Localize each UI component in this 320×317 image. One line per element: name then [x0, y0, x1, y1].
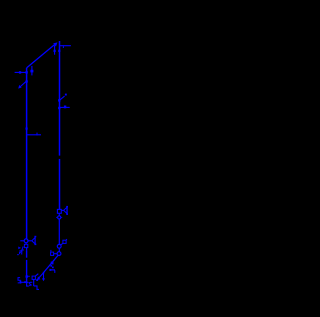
via dot on V1 [26, 128, 28, 130]
step below V1b end [27, 284, 29, 286]
via dot on V2 [58, 50, 60, 52]
tick above blob [53, 260, 55, 261]
ring R3 [57, 252, 61, 256]
pad P1 square on V2 [57, 209, 61, 213]
link S3 to R3 [54, 253, 58, 255]
arrow A1 on V1 (emitter-style, down-left) [18, 80, 28, 88]
stub from D1 down with pad [30, 66, 33, 76]
wire V1b upper [26, 250, 28, 257]
glyph bar horizontal [50, 269, 55, 271]
pad S3 square [51, 252, 54, 255]
pad S4 square [24, 244, 27, 247]
junction dot T at V1 top [25, 71, 27, 73]
arrow diagonal down-left [36, 273, 43, 281]
stub below S4 [26, 248, 28, 251]
nubs on R1 [55, 216, 58, 218]
junction dot on H1 [19, 71, 21, 73]
wire P1 to R1 [58, 213, 60, 215]
wire P1 to diode [61, 209, 63, 211]
wire bottom horizontal [21, 281, 28, 283]
tick on S2 [65, 239, 68, 240]
wire H2 top stub [59, 45, 71, 47]
small arrowhead up-left [28, 282, 31, 286]
pad S5 square [32, 276, 35, 279]
diagonal D3 [44, 256, 58, 273]
label blob on D3 [51, 262, 54, 265]
junction at D3 lower end [43, 272, 45, 274]
stub left of R4 [20, 240, 24, 242]
glyph near R4 [18, 246, 23, 251]
stub diagonal from S5 [35, 274, 38, 276]
wire V1 left vertical [26, 68, 28, 239]
wire V2 lower [59, 159, 61, 209]
tick right of via [28, 275, 30, 277]
branch B1 diagonal with blob [58, 94, 67, 102]
ring R4 [24, 239, 28, 243]
glyph tick down at bar right [54, 270, 56, 273]
stub right of R4 [28, 240, 32, 242]
diode T1 triangle [32, 238, 35, 244]
arrow vertical down [42, 273, 45, 282]
diagonal D1 with arrowhead [27, 42, 58, 68]
stub R4 to S4 [25, 243, 27, 245]
short vertical SV1 [54, 45, 56, 54]
branch B2 horizontal with blob [58, 106, 70, 110]
stub below S5 [33, 279, 35, 286]
stub R2 to S2 [61, 243, 63, 245]
stub wire H3 [27, 134, 41, 136]
pad S2 square [63, 240, 66, 243]
dot right of S5 [36, 279, 38, 281]
ring R1 [58, 216, 61, 219]
wire R1 to R2 [58, 219, 60, 244]
via dot on V1b [26, 275, 29, 277]
small dots below blob [50, 265, 52, 267]
diode T2 triangle [64, 207, 67, 213]
tick on H2 [62, 46, 64, 48]
diode T1 bar [34, 236, 36, 245]
cap tick at left end [20, 280, 22, 283]
via dot on SV1 [54, 50, 56, 52]
glyph 2 [17, 249, 23, 255]
stub R2 to R3 [58, 248, 60, 251]
staircase wire [34, 286, 39, 290]
dash right [30, 281, 32, 283]
wire H1 left stub [15, 71, 27, 73]
wire V1b lower [26, 260, 28, 284]
ring R2 [57, 244, 61, 248]
wire V2 upper [59, 41, 61, 156]
blob at crossing [24, 281, 26, 283]
tick above S3 [50, 250, 52, 252]
tick on H3 [36, 133, 38, 136]
glyph blob at bar left [49, 269, 51, 271]
dot [29, 285, 30, 286]
glyph 5 [18, 278, 20, 283]
diode T2 bar [66, 206, 68, 214]
